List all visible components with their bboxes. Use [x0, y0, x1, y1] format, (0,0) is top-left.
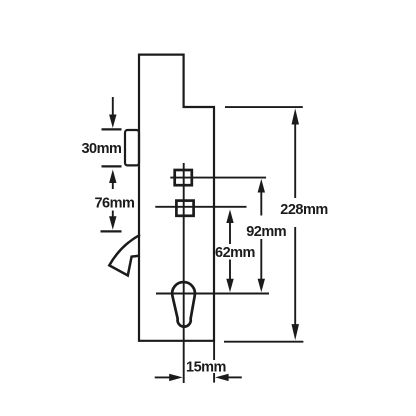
lock case outline: [139, 55, 214, 341]
vertical center line through spindle holes and cylinder: [183, 163, 185, 383]
spindle hole upper (square): [175, 170, 192, 185]
dimension 76mm lower tick: [101, 230, 122, 232]
svg-text:76mm: 76mm: [94, 196, 134, 212]
svg-text:228mm: 228mm: [280, 202, 327, 218]
svg-text:30mm: 30mm: [81, 141, 121, 157]
dimension 92mm label: [246, 224, 286, 240]
dimension 76mm lower arrow (down): [109, 211, 116, 230]
lower spindle hole center line: [155, 206, 246, 208]
dimension 30mm label: [81, 141, 121, 157]
svg-text:15mm: 15mm: [186, 359, 226, 375]
dimension 30mm upper tick: [102, 128, 122, 130]
cylinder center line: [156, 293, 269, 295]
dimension 76mm label: [94, 196, 134, 212]
dimension 30mm upper arrow (down): [109, 97, 116, 128]
svg-text:62mm: 62mm: [215, 245, 255, 261]
hook bolt: [109, 235, 140, 276]
spindle hole lower (square): [176, 201, 193, 216]
right edge extension line below case: [213, 341, 215, 383]
euro cylinder cutout: [172, 282, 195, 327]
dimension 228mm label: [280, 202, 327, 218]
dimension 228mm line with arrows: [292, 108, 300, 340]
dimension 76mm upper arrow (up): [109, 170, 116, 190]
svg-text:92mm: 92mm: [246, 224, 286, 240]
top extension line for 228mm: [225, 106, 303, 108]
dimension 92mm line with arrows: [258, 179, 265, 292]
dimension 62mm label: [215, 245, 255, 261]
bottom extension line for 228mm: [224, 341, 303, 343]
latch bolt: [125, 130, 139, 165]
upper spindle hole center line: [170, 177, 266, 179]
dimension 15mm label: [186, 359, 226, 375]
dimension 15mm right arrow (pointing left): [215, 374, 242, 381]
dimension 62mm line with arrows: [226, 210, 233, 293]
dimension 30mm lower tick: [102, 165, 122, 167]
dimension 15mm left arrow (pointing right): [155, 374, 183, 381]
